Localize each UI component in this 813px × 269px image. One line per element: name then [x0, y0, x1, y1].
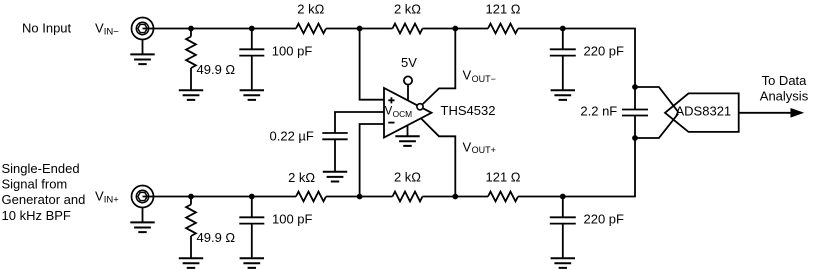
resistor 49.9 ohm (top) body — [186, 37, 196, 69]
arrowhead to data analysis — [791, 108, 805, 118]
coax connector J1 (VIN-) — [132, 18, 154, 40]
ground for 49.9 ohm (bottom) — [179, 258, 203, 268]
node G (bottom 100pF junction) — [249, 194, 255, 200]
svg-text:ADS8321: ADS8321 — [676, 103, 732, 118]
wire 5V to op-amp top — [407, 85, 409, 101]
node E (top 220pF junction) — [560, 26, 566, 32]
svg-text:10 kHz BPF: 10 kHz BPF — [2, 208, 71, 223]
svg-text:V: V — [463, 139, 472, 154]
svg-text:THS4532: THS4532 — [441, 103, 496, 118]
svg-text:2 kΩ: 2 kΩ — [297, 2, 324, 17]
svg-text:2 kΩ: 2 kΩ — [394, 2, 421, 17]
ground for J2 — [142, 207, 144, 222]
svg-text:IN+: IN+ — [104, 194, 120, 205]
svg-text:V: V — [385, 106, 393, 118]
resistor R6 121 ohm (bottom) — [488, 192, 518, 202]
node B (top 100pF junction) — [249, 26, 255, 32]
capacitor 220 pF (bottom) — [562, 197, 564, 218]
wire VOCM to cap — [335, 112, 384, 133]
wire bottom rail: J2 to R2 — [143, 196, 297, 198]
svg-text:V: V — [95, 189, 104, 204]
op-amp plus input marker — [388, 97, 394, 103]
node K (ADC top input) — [632, 84, 638, 90]
coax connector J2 (VIN+) — [132, 186, 154, 208]
node D (VOUT- node) — [452, 26, 458, 32]
svg-text:121 Ω: 121 Ω — [485, 170, 520, 185]
wire VOUT+ : output to node I — [421, 118, 455, 196]
op-amp inverting output circle — [417, 104, 423, 110]
wire R5 to node E — [518, 28, 563, 30]
svg-text:0.22 µF: 0.22 µF — [270, 129, 314, 144]
wire R1 to node C — [326, 28, 393, 30]
ground for 0.22 uF — [323, 172, 347, 182]
resistor R2 2k (bottom input) — [296, 192, 326, 202]
wire R2 to node H — [326, 196, 393, 198]
node L (ADC bottom input) — [632, 135, 638, 141]
svg-text:220 pF: 220 pF — [584, 212, 625, 227]
svg-text:IN−: IN− — [104, 26, 120, 37]
wire R4 to node I — [423, 196, 489, 198]
svg-text:Signal from: Signal from — [2, 177, 68, 192]
ground for 100 pF (bottom) — [240, 258, 264, 268]
svg-text:OUT+: OUT+ — [472, 145, 496, 155]
resistor R1 2k (top input) — [296, 24, 326, 34]
svg-text:V: V — [463, 68, 472, 83]
capacitor 220 pF (top) — [562, 29, 564, 50]
ground for 49.9 ohm (top) — [179, 90, 203, 100]
svg-text:5V: 5V — [401, 55, 417, 70]
node F (bottom input junction) — [188, 194, 194, 200]
svg-text:No Input: No Input — [22, 21, 72, 36]
node I (VOUT+ node) — [452, 194, 458, 200]
svg-text:49.9 Ω: 49.9 Ω — [197, 230, 236, 245]
wire R6 to node J — [518, 196, 563, 198]
svg-text:To Data: To Data — [762, 73, 808, 88]
op-amp minus input marker — [388, 122, 394, 124]
wire ADC top input (crossover) — [635, 87, 678, 112]
resistor 49.9 ohm (top) leads — [190, 29, 192, 91]
node A (top input junction) — [188, 26, 194, 32]
resistor 49.9 ohm (bottom) body — [186, 205, 196, 237]
ADC U2 ADS8321 symbol — [665, 93, 739, 131]
resistor R5 121 ohm (top) — [488, 24, 518, 34]
capacitor 2.2 nF (differential) — [622, 110, 648, 116]
wire top rail to right column — [563, 29, 635, 110]
capacitor 100 pF (top) — [251, 29, 253, 50]
svg-text:OUT−: OUT− — [472, 74, 496, 84]
wire ADC bottom input (crossover) — [635, 114, 678, 139]
op-amp ground stem — [407, 125, 409, 136]
resistor R3 2k (top feedback) — [393, 24, 423, 34]
wire R3 to node D — [423, 28, 489, 30]
capacitor 100 pF (bottom) — [251, 197, 253, 218]
wire ADC output — [739, 112, 792, 114]
resistor 49.9 ohm (bottom) leads — [190, 197, 192, 259]
node J (bottom 220pF junction) — [560, 194, 566, 200]
5V supply circle — [404, 76, 412, 84]
svg-text:Analysis: Analysis — [760, 89, 809, 104]
svg-text:100 pF: 100 pF — [272, 43, 313, 58]
ground for 220 pF (bottom) — [551, 258, 575, 268]
op-amp U1 THS4532 triangle — [384, 88, 432, 138]
svg-text:2 kΩ: 2 kΩ — [394, 170, 421, 185]
wire top rail: J1 to R1 — [143, 28, 297, 30]
ground for op-amp — [395, 136, 419, 146]
svg-text:OCM: OCM — [393, 109, 413, 119]
svg-text:49.9 Ω: 49.9 Ω — [197, 62, 236, 77]
wire bottom rail to right column — [563, 116, 635, 197]
ground for J1 — [142, 39, 144, 54]
ground for 220 pF (top) — [551, 90, 575, 100]
capacitor 0.22 uF (VOCM) — [322, 133, 347, 139]
svg-text:220 pF: 220 pF — [584, 43, 625, 58]
svg-text:2 kΩ: 2 kΩ — [288, 170, 315, 185]
wire - input: node H to op-amp — [360, 124, 384, 197]
svg-text:2.2 nF: 2.2 nF — [580, 104, 617, 119]
wire VOUT- : output to node D — [422, 29, 455, 105]
svg-text:100 pF: 100 pF — [272, 212, 313, 227]
svg-text:Generator and: Generator and — [2, 192, 86, 207]
node C (op-amp + input node) — [357, 26, 363, 32]
svg-text:V: V — [95, 21, 104, 36]
ground for 100 pF (top) — [240, 90, 264, 100]
wire + input: node C to op-amp — [360, 29, 384, 100]
svg-text:Single-Ended: Single-Ended — [2, 161, 80, 176]
resistor R4 2k (bottom feedback) — [393, 192, 423, 202]
svg-text:121 Ω: 121 Ω — [485, 2, 520, 17]
node H (op-amp - input node) — [357, 194, 363, 200]
